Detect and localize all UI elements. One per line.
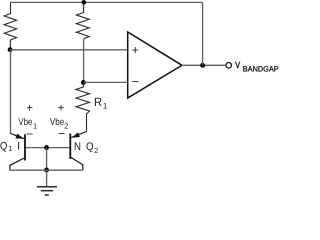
label Vbe2: [50, 117, 69, 130]
wire top rail: [11, 1, 203, 3]
svg-text:1: 1: [8, 144, 12, 153]
label N (area ratio): [74, 141, 81, 153]
node top rail junction: [81, 0, 86, 5]
svg-text:+: +: [132, 43, 139, 57]
resistor R1: [76, 83, 90, 132]
svg-text:BANDGAP: BANDGAP: [243, 65, 279, 74]
svg-text:R: R: [94, 95, 102, 109]
wire op-amp - input: [83, 81, 127, 83]
label Q1: [0, 141, 12, 154]
label Vbe1: [18, 117, 37, 130]
node D (collector tie): [44, 168, 49, 173]
svg-text:−: −: [58, 127, 65, 141]
label R1: [94, 95, 108, 111]
svg-text:−: −: [132, 75, 139, 89]
svg-text:1: 1: [103, 101, 108, 110]
svg-text:+: +: [58, 102, 65, 114]
svg-text:−: −: [26, 127, 33, 141]
resistor R-left: [4, 2, 16, 49]
svg-text:2: 2: [94, 146, 98, 155]
transistor Q1: [10, 134, 25, 171]
node C (base tie): [44, 145, 49, 150]
svg-text:Q: Q: [86, 141, 94, 153]
svg-text:I: I: [17, 141, 20, 153]
label + polarity Vbe2: [58, 102, 65, 114]
wire left rail lower: [10, 50, 12, 134]
label I (unit current): [17, 141, 20, 153]
label VBANDGAP: [235, 60, 278, 74]
resistor R-middle: [76, 2, 89, 38]
wire base to collector tie: [46, 148, 48, 170]
ground: [37, 187, 57, 195]
op-amp U1: [128, 32, 182, 98]
svg-text:N: N: [74, 141, 81, 153]
node A (left, op-amp + input): [8, 47, 13, 52]
wire collector rail: [10, 169, 83, 171]
label - polarity Vbe1: [26, 127, 33, 141]
wire feedback: [202, 2, 204, 65]
label Q2: [86, 141, 98, 155]
label - polarity Vbe2: [58, 127, 65, 141]
svg-text:1: 1: [33, 121, 37, 130]
label + polarity Vbe1: [26, 102, 33, 114]
node E (output): [200, 63, 205, 68]
svg-text:Q: Q: [0, 141, 8, 153]
svg-text:+: +: [26, 102, 33, 114]
transistor Q2: [70, 132, 86, 171]
wire op-amp + input: [10, 49, 128, 51]
wire middle rail: [83, 39, 85, 83]
node B (middle, op-amp - input): [81, 80, 86, 85]
wire base Q1-Q2: [26, 147, 70, 149]
svg-text:V: V: [235, 60, 241, 70]
terminal Vbandgap: [226, 63, 232, 69]
wire op-amp output: [182, 64, 226, 66]
wire ground lead: [46, 170, 48, 187]
